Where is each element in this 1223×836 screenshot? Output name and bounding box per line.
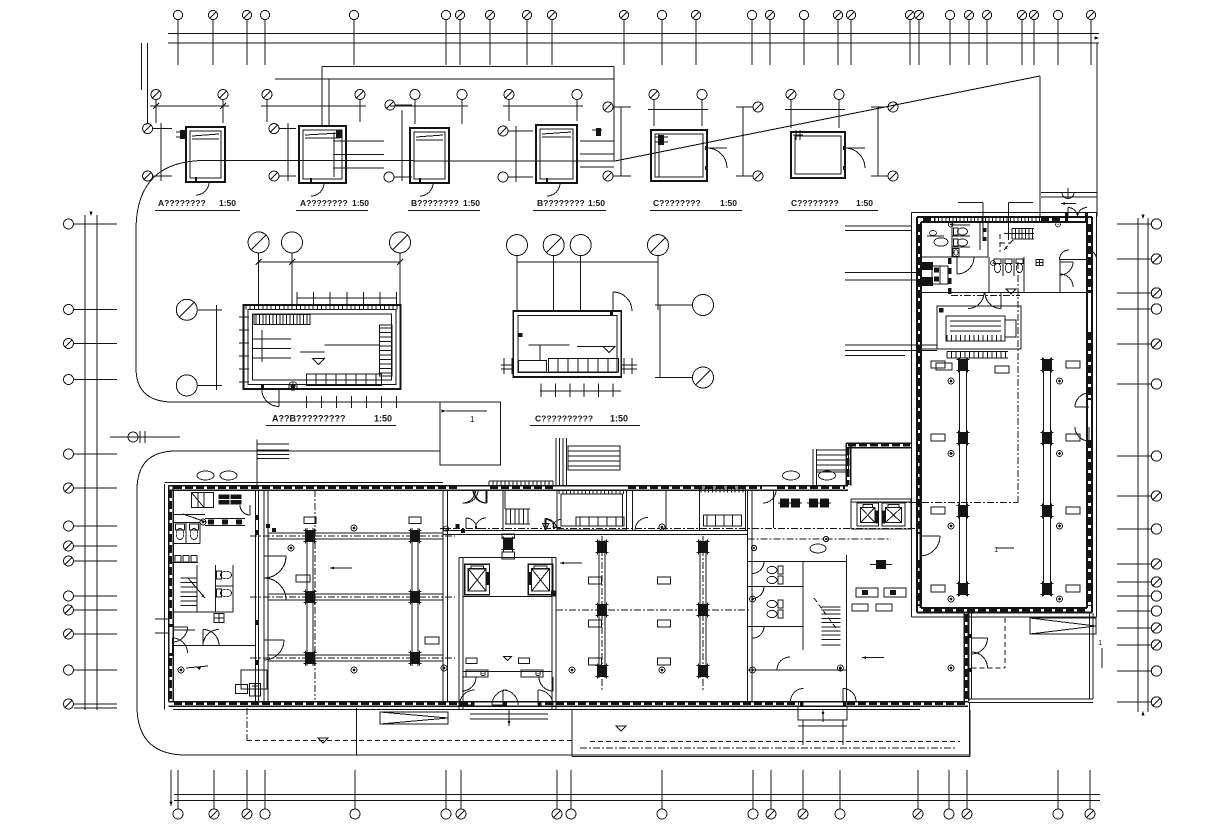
- svg-text:1:50: 1:50: [374, 414, 392, 424]
- svg-text:1:50: 1:50: [219, 198, 236, 208]
- svg-text:1:50: 1:50: [610, 414, 628, 424]
- svg-text:A????????: A????????: [300, 198, 348, 208]
- svg-text:A????????: A????????: [158, 198, 206, 208]
- svg-text:C??????????: C??????????: [535, 414, 593, 424]
- svg-text:1: 1: [994, 545, 998, 554]
- svg-text:A??B?????????: A??B?????????: [272, 414, 345, 424]
- svg-text:1:50: 1:50: [352, 198, 369, 208]
- svg-text:1:50: 1:50: [720, 198, 737, 208]
- svg-text:C????????: C????????: [653, 198, 701, 208]
- svg-text:1:50: 1:50: [463, 198, 480, 208]
- svg-text:1: 1: [1098, 638, 1102, 647]
- svg-text:B????????: B????????: [411, 198, 459, 208]
- svg-text:1:50: 1:50: [588, 198, 605, 208]
- svg-text:1: 1: [470, 415, 475, 424]
- svg-text:B????????: B????????: [537, 198, 585, 208]
- svg-text:C????????: C????????: [791, 198, 839, 208]
- svg-text:1:50: 1:50: [856, 198, 873, 208]
